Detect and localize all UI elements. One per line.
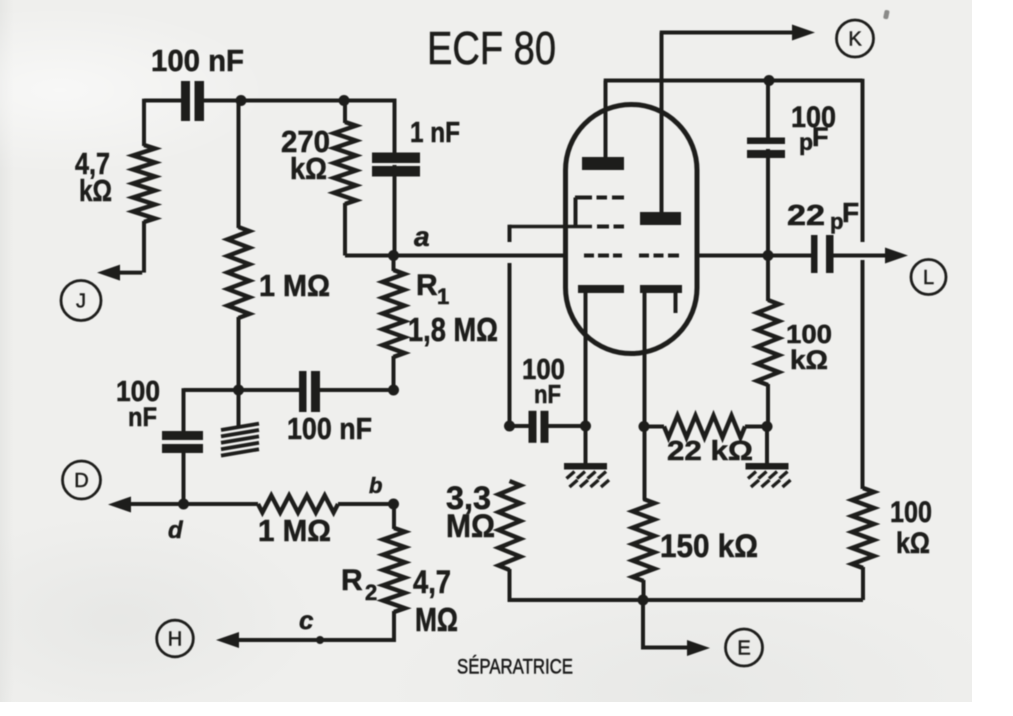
svg-text:1 MΩ: 1 MΩ (258, 513, 331, 548)
wire: 270k bottom lead (343, 203, 347, 256)
svg-text:kΩ: kΩ (290, 151, 327, 186)
svg-text:b: b (369, 473, 382, 498)
resistor 100 kohm screen (757, 300, 779, 385)
junction triode cathode/ground (580, 421, 591, 432)
terminal J (61, 281, 101, 321)
svg-text:c: c (299, 605, 314, 635)
terminal K (837, 20, 874, 57)
svg-text:100: 100 (890, 496, 932, 529)
junction 22k right/ground (762, 421, 773, 432)
capacitor 100 pF (747, 138, 785, 145)
wire: ground stem (584, 426, 588, 464)
tube ECF80 envelope (566, 105, 698, 354)
svg-text:D: D (74, 470, 88, 492)
svg-text:F: F (842, 197, 859, 228)
terminal L (911, 260, 946, 295)
junction y390/R1 column (388, 385, 399, 396)
junction pentode cathode/22k (639, 421, 650, 432)
wire: screen resistor bottom lead (766, 384, 770, 427)
scan speck top right (883, 10, 890, 20)
svg-text:d: d (168, 517, 184, 544)
svg-text:kΩ: kΩ (790, 345, 828, 375)
grid row 1 dashes (575, 196, 592, 200)
capacitor 1 nF (372, 153, 420, 164)
svg-text:p: p (799, 129, 813, 155)
svg-text:1 nF: 1 nF (410, 117, 460, 149)
wire: 1nF branch lower (393, 165, 397, 256)
junction rail/E branch (638, 595, 649, 606)
svg-text:J: J (76, 291, 86, 313)
wire: far right column lower (861, 260, 865, 489)
wire: top bus y=100.5 right of coupling cap (204, 99, 396, 103)
svg-text:kΩ: kΩ (896, 527, 930, 560)
ground under screen divider (746, 463, 789, 470)
wire: 150k lead to rail (642, 580, 646, 600)
triode anode plate bar (582, 157, 624, 170)
wire: 22pF to L arrow (834, 254, 887, 258)
arrow to terminal K (792, 25, 815, 41)
wire: 270k top lead (343, 101, 347, 124)
svg-text:MΩ: MΩ (446, 508, 495, 544)
svg-text:R: R (416, 269, 438, 302)
wire: y=390 left of mid cap (184, 388, 300, 392)
wire: R2 bottom corner to H (237, 611, 394, 640)
wire: screen resistor top lead (766, 256, 770, 302)
wire: node a horizontal to tube (345, 254, 565, 258)
svg-text:150 kΩ: 150 kΩ (660, 528, 758, 564)
wire: cathode cap to junction (549, 424, 586, 428)
capacitor 100 nF series mid (299, 371, 307, 412)
svg-text:22: 22 (787, 200, 825, 232)
svg-text:kΩ: kΩ (79, 173, 112, 208)
svg-text:H: H (168, 629, 182, 651)
resistor 4,7 kohm (133, 145, 155, 222)
capacitor 100 nF cathode (529, 411, 537, 443)
grid row 2 lead and dashes (510, 225, 593, 229)
resistor 150 kohm (633, 499, 655, 581)
junction node a (388, 250, 399, 261)
svg-text:R: R (341, 564, 363, 597)
svg-text:100 nF: 100 nF (287, 411, 372, 446)
svg-text:F: F (812, 122, 829, 152)
resistor R1 1,8 Mohm (383, 270, 405, 357)
resistor 1 Mohm horizontal (258, 496, 338, 513)
wire: 1nF branch upper (393, 99, 397, 154)
wire: 1 Mohm top lead (237, 101, 241, 229)
wire: R1 top lead (392, 254, 396, 271)
capacitor C 100 nF (top-left coupling) (181, 81, 190, 121)
node c tick (316, 636, 324, 644)
wire: far right column upper (861, 79, 865, 242)
svg-text:1,8 MΩ: 1,8 MΩ (408, 311, 498, 348)
wire: R2 top lead (392, 502, 396, 529)
svg-text:1: 1 (437, 284, 449, 309)
svg-text:ECF 80: ECF 80 (427, 22, 556, 74)
arrow to terminal E (687, 640, 710, 656)
ground under triode cathode (564, 463, 607, 470)
resistor 270 kohm (334, 122, 356, 204)
junction grid2 column / cathode cap branch (504, 421, 515, 432)
wire: main output line tube to 22pF (697, 254, 811, 258)
wire: top bus y=100.5 left of coupling cap (144, 99, 181, 103)
wire: E branch corner (643, 600, 690, 648)
junction main line/100pF column (763, 250, 774, 261)
terminal H (157, 620, 194, 657)
wire: bottom rail y=600 (508, 598, 863, 602)
arrow into terminal H (216, 632, 239, 648)
junction node d (178, 499, 189, 510)
junction top bus/100pF column (764, 75, 775, 86)
wire: 3.3M lead to rail (508, 569, 512, 602)
wire: tie between grid rows (574, 198, 578, 227)
wire: 4.7k top lead (142, 99, 146, 146)
svg-text:a: a (414, 221, 430, 252)
wire: 100pF column lower (766, 149, 770, 256)
arrow into terminal D (108, 497, 131, 513)
svg-text:nF: nF (128, 402, 157, 432)
wire: 1 Mohm bottom lead (237, 317, 241, 390)
wire: pentode anode to K line (660, 33, 664, 213)
wire: right 100k lead to rail (861, 567, 865, 600)
wire: triode cathode leg (584, 292, 588, 426)
ground hatched below 1 Mohm (221, 424, 259, 430)
wire: pentode cathode stub leg (674, 292, 678, 313)
wire: left cap branch upper (182, 388, 186, 432)
terminal E (726, 629, 763, 666)
wire: pentode cathode leg (643, 292, 647, 427)
junction y390/1M column (233, 385, 244, 396)
wire: y=504 to node b (338, 502, 394, 506)
wire: stub to cathode cap (510, 424, 529, 428)
svg-text:22 kΩ: 22 kΩ (667, 435, 753, 466)
svg-text:nF: nF (534, 379, 561, 409)
svg-text:E: E (737, 638, 750, 660)
terminal D (63, 461, 101, 499)
svg-text:SÉPARATRICE: SÉPARATRICE (457, 654, 573, 679)
resistor 3,3 Mohm (499, 481, 521, 570)
wire: K line y=32.5 (660, 31, 797, 35)
wire: anode top bus y=80.5 (604, 79, 863, 83)
junction: top bus / 270 kohm column (339, 95, 350, 106)
svg-text:1 MΩ: 1 MΩ (259, 268, 330, 303)
junction: top bus / 1 Mohm column (236, 95, 247, 106)
resistor 100 kohm right (852, 488, 874, 568)
svg-text:L: L (923, 267, 934, 289)
resistor 1 Mohm vertical (228, 227, 250, 318)
svg-text:4,7: 4,7 (413, 564, 451, 600)
pentode anode plate bar (640, 212, 681, 225)
svg-text:2: 2 (365, 580, 377, 605)
resistor R2 4,7 Mohm (383, 528, 405, 612)
wire: node d horizontal y=504 (116, 502, 258, 506)
wire: ground stem right (765, 427, 769, 465)
resistor 22 kohm (645, 425, 665, 429)
svg-text:MΩ: MΩ (415, 601, 458, 638)
svg-text:100 nF: 100 nF (151, 43, 244, 78)
grid row 3 dashes on main line (584, 254, 594, 258)
wire: y=390 right of mid cap (320, 388, 394, 392)
capacitor 22 pF (811, 235, 818, 273)
svg-text:K: K (848, 29, 862, 51)
wire: ground stem (237, 390, 241, 426)
wire: pentode cathode to 150k (643, 425, 647, 500)
arrow into terminal J (97, 265, 120, 281)
wire: 100pF column upper (766, 81, 770, 139)
wire: R1 bottom lead (392, 356, 396, 390)
capacitor 100 nF left (horizontal plates) (162, 431, 203, 440)
wire: left cap branch lower (182, 452, 186, 504)
wire: grid2 column crossing main line with gap (508, 225, 512, 242)
arrow to terminal L (885, 248, 908, 264)
wire: 4.7k bottom lead and corner (142, 221, 146, 273)
junction node b (388, 499, 399, 510)
wire: triode anode to top bus (604, 81, 608, 158)
triode cathode bar (578, 285, 624, 293)
pentode cathode bar (640, 285, 682, 293)
